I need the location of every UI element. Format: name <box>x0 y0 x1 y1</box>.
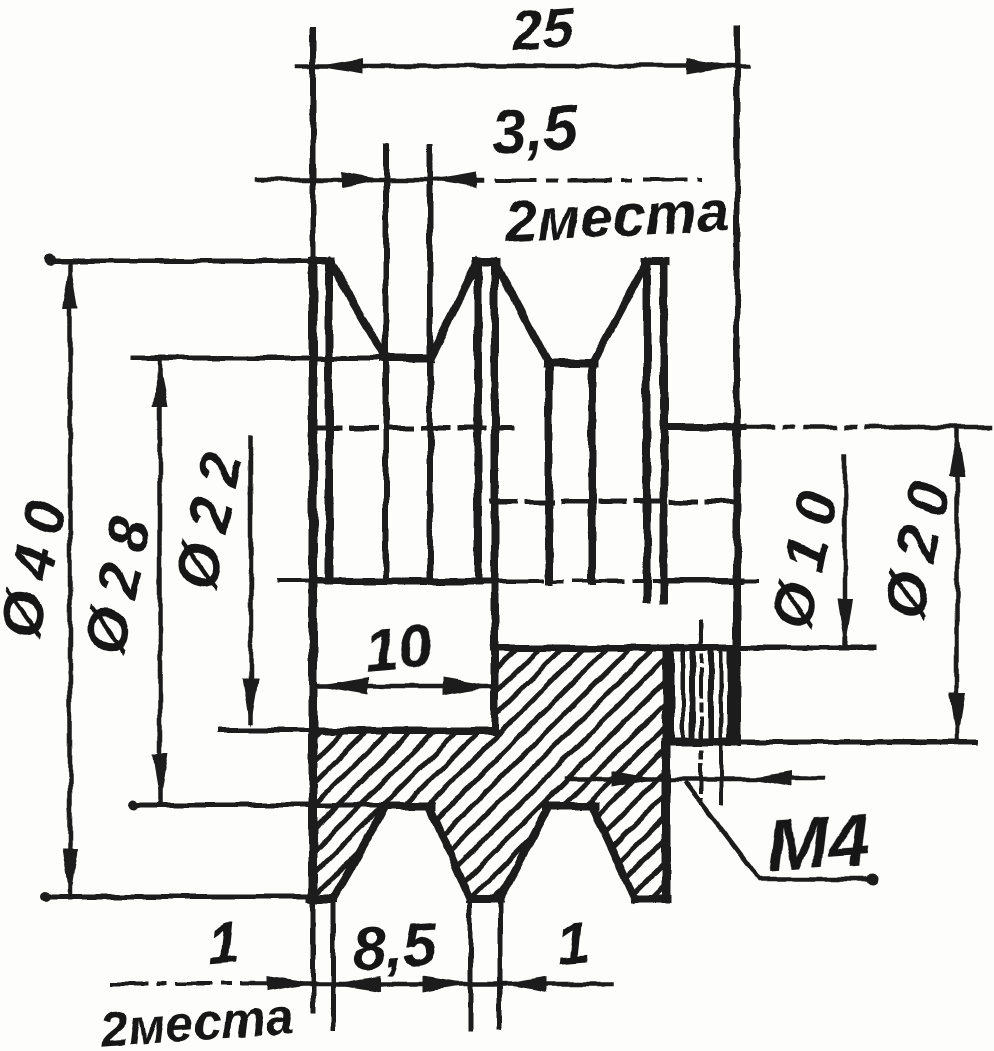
hatched hub sliver right of thread hole <box>730 648 737 742</box>
bottom dim extension line a <box>331 899 336 1028</box>
groove 2 bottom right line <box>588 364 596 581</box>
svg-text:Ø28: Ø28 <box>72 498 167 660</box>
rim right face lower <box>662 742 671 899</box>
groove bottom extension left <box>140 803 386 808</box>
groove 1 right flank <box>430 262 478 358</box>
groove 2 right flank <box>592 261 647 364</box>
dimension Ø10 line <box>843 457 848 644</box>
rib 2 left edge line <box>643 262 651 600</box>
recess bottom extension <box>219 728 313 733</box>
groove 1 bottom edge right line <box>427 147 433 581</box>
notch 1 right flank <box>429 806 470 899</box>
dimension 10 arrow left <box>316 677 368 695</box>
dimension Ø40 arrow top <box>62 261 78 309</box>
dimension 3,5 arrow left <box>341 172 386 188</box>
hidden recess line <box>316 426 512 431</box>
bottom dim extension line c <box>498 899 503 1028</box>
dimension Ø20 arrow bottom <box>949 693 965 741</box>
rib 1 left edge line <box>474 262 482 581</box>
dimension Ø28 arrow top <box>152 360 168 407</box>
svg-text:2места: 2места <box>97 988 295 1051</box>
svg-text:1: 1 <box>204 910 242 978</box>
groove 1 bottom edge left line <box>383 147 389 581</box>
svg-text:8,5: 8,5 <box>351 910 441 983</box>
groove 1 left flank <box>329 261 386 358</box>
hatched section rim body <box>313 648 666 899</box>
rim bottom land 2 <box>470 895 500 903</box>
hub right face / extension <box>734 28 740 427</box>
svg-text:M4: M4 <box>764 798 872 888</box>
hatched hub sliver left of thread hole <box>666 648 672 742</box>
rib 1 right edge / recess end wall <box>491 262 499 731</box>
svg-text:25: 25 <box>508 0 576 62</box>
groove 2 left flank <box>495 262 549 364</box>
groove 2 bottom flat <box>547 360 594 368</box>
groove 2 bottom left line <box>545 364 553 581</box>
hub top extension dashed <box>743 425 874 430</box>
rib 2 top flat <box>645 257 666 265</box>
notch 2 flat <box>546 802 595 810</box>
top land edge line <box>325 261 333 581</box>
hub bottom edge <box>666 738 737 746</box>
notch 2 right flank <box>592 806 635 899</box>
dimension Ø10 arrow <box>837 599 853 647</box>
recess bottom edge <box>313 728 494 735</box>
bore bottom edge <box>494 645 737 652</box>
rim right face upper <box>660 261 668 600</box>
dimension Ø20 line <box>955 428 960 741</box>
rim hub junction edge <box>663 648 670 742</box>
dimension Ø20 arrow top <box>949 428 965 476</box>
M4 pointer arrow left-facing <box>746 771 791 787</box>
svg-text:Ø22: Ø22 <box>163 433 258 595</box>
dimension Ø28 line <box>158 359 163 802</box>
svg-text:1: 1 <box>554 910 592 978</box>
dimension 10 line <box>316 684 493 689</box>
notch 1 flat <box>383 802 432 810</box>
bottom dim arrow 2 <box>333 976 380 992</box>
dimension Ø40 line <box>68 261 73 897</box>
dimension 25 arrow left <box>315 58 363 74</box>
dimension 25 line <box>298 64 748 69</box>
thread hole M4 lines <box>669 650 675 740</box>
groove 1 bottom flat <box>133 356 386 361</box>
hub top edge <box>664 424 743 431</box>
M4 leader line <box>686 783 872 879</box>
rib 1 top flat <box>476 258 497 266</box>
hidden bore line <box>492 500 737 505</box>
dimension Ø28 arrow bottom <box>152 754 168 802</box>
dot at Ø40 bottom extension end <box>40 892 50 902</box>
dot at Ø40 top extension end <box>44 254 56 266</box>
bottom face extension Ø40 <box>48 895 313 900</box>
M4 pointer arrow right-facing <box>612 771 658 787</box>
bottom dim arrow 3 <box>423 976 470 992</box>
thread hole centerline <box>699 622 703 803</box>
hub top extension solid <box>874 425 991 430</box>
dimension Ø40 arrow bottom <box>62 849 78 897</box>
M4 leader dot <box>866 873 878 885</box>
rim bottom land 1 <box>311 895 333 903</box>
dimension Ø22 arrow bottom <box>243 679 259 727</box>
dimension 25 arrow right <box>687 58 735 74</box>
top outline land 1 <box>48 259 313 264</box>
axis centerline <box>278 579 313 583</box>
left face / extension line <box>310 30 316 261</box>
dimension 3,5 arrow right <box>431 172 476 188</box>
notch 2 left flank <box>500 806 549 899</box>
dimension 10 arrow right <box>443 677 493 695</box>
M4 pointer line <box>566 777 823 782</box>
dot at Ø28 bottom extension end <box>128 800 138 810</box>
notch 1 left flank <box>333 806 386 899</box>
svg-text:3,5: 3,5 <box>489 93 581 168</box>
rim bottom land 3 <box>635 895 668 903</box>
bottom dim arrow 1 <box>268 976 315 992</box>
bottom dim extension line b <box>468 899 473 1028</box>
svg-text:10: 10 <box>362 612 434 685</box>
hub bottom extension <box>737 740 975 745</box>
dimension Ø22 line <box>249 438 254 722</box>
svg-text:Ø20: Ø20 <box>871 462 966 624</box>
svg-text:2места: 2места <box>502 178 730 255</box>
dimension 3,5 line <box>257 178 481 183</box>
bottom dim arrow 4 <box>500 976 547 992</box>
bottom dimension line <box>112 982 252 986</box>
